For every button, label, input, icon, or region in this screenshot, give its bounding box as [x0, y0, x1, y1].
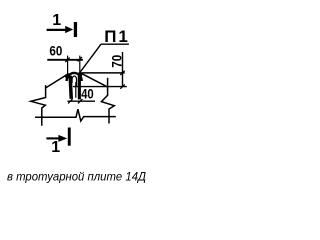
dimension 70 top tick — [120, 71, 124, 75]
dimension 60 right extension line — [79, 56, 81, 73]
section mark 1 (bottom) cut-line bar — [68, 128, 71, 146]
slab bottom edge with break kink — [35, 109, 116, 121]
dimension 40 left tick — [68, 99, 72, 103]
svg-text:1: 1 — [52, 12, 61, 29]
slab top edge sloped (left) — [46, 74, 68, 88]
dimension 40 right tick — [78, 99, 82, 103]
svg-text:60: 60 — [49, 43, 62, 59]
slab lower surface line — [73, 86, 127, 88]
svg-text:40: 40 — [81, 85, 94, 101]
dimension 70 bottom tick — [120, 84, 124, 88]
label P1 leader line — [80, 44, 101, 72]
dimension 60 left tick — [65, 58, 69, 62]
loop/rim left junction blob — [65, 73, 70, 79]
slab top edge sloped (right) — [81, 73, 108, 87]
section mark 1 (top) arrowhead — [65, 26, 73, 33]
break line (left) — [31, 85, 46, 126]
section mark 1 (top) cut-line bar — [74, 22, 77, 37]
section mark 1 (bottom) arrow shaft — [46, 137, 60, 139]
lifting loop P1 inner arc — [72, 76, 77, 86]
dimension 40 line — [67, 100, 95, 102]
label P1 underline — [101, 43, 129, 45]
svg-text:П1: П1 — [104, 27, 129, 46]
lifting loop P1 left leg — [69, 76, 73, 99]
break line (right) — [101, 78, 114, 124]
dimension 70 extension line — [122, 52, 124, 87]
svg-text:1: 1 — [51, 139, 60, 156]
dimension 60 left extension line — [67, 56, 69, 75]
slab top surface line (right) — [82, 72, 125, 74]
lifting loop P1 outer arc — [67, 73, 82, 81]
loop/rim right junction blob — [79, 72, 83, 78]
section mark 1 (bottom) arrowhead — [58, 135, 67, 142]
lifting loop P1 inner right leg line — [75, 82, 77, 98]
svg-text:в тротуарной плите 14Д: в тротуарной плите 14Д — [7, 170, 147, 184]
dimension 60 right tick — [78, 57, 82, 61]
section mark 1 (top) arrow shaft — [47, 29, 66, 31]
dimension 60 line — [47, 59, 83, 61]
lifting loop P1 right leg — [78, 74, 80, 100]
